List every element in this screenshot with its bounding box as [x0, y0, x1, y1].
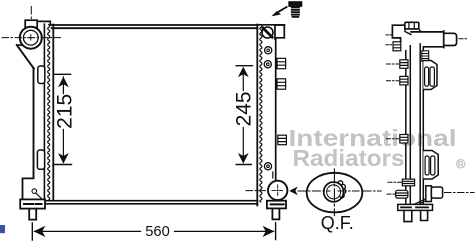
QF vertical centerline: [333, 169, 335, 216]
215 line: [62, 77, 64, 162]
560 right extension: [275, 223, 277, 240]
tank bottom step: [23, 178, 34, 199]
right outlet housing: [267, 201, 286, 209]
bolt rivet circle 1: [265, 47, 272, 54]
560 right arrow: [263, 226, 275, 237]
right tank top edge: [257, 24, 285, 26]
outlet cross: [272, 185, 283, 196]
sv pipe centerline right: [459, 38, 468, 40]
right drain pipe: [272, 209, 279, 220]
215 arrow up: [58, 77, 69, 88]
nipple 3: [278, 135, 287, 145]
right housing dashes: [271, 203, 284, 205]
215 top tick: [55, 73, 71, 75]
bolt shank: [292, 7, 299, 16]
svg-text:Radiators: Radiators: [293, 145, 405, 171]
filler center cross: [28, 35, 34, 41]
560 left arrow: [34, 226, 46, 237]
QF ellipse: [307, 173, 363, 213]
sv pointer top1: [386, 34, 392, 36]
sv neck-to-pipe: [419, 29, 421, 32]
right cap circle with slash: [262, 27, 273, 38]
left header plate line: [43, 24, 45, 199]
svg-text:R: R: [458, 160, 464, 169]
QF arrow to outlet: [289, 187, 298, 196]
sv upper bracket slot 2: [430, 67, 434, 86]
sv body line 3: [419, 44, 421, 204]
245 bottom tick: [236, 164, 251, 166]
bolt rivet circle 3: [264, 163, 271, 170]
sv body line 1: [405, 51, 407, 204]
svg-text:245: 245: [232, 91, 255, 126]
215 arrow down: [58, 153, 69, 164]
bottom outlet circle: [268, 181, 287, 200]
tank shoulder: [17, 44, 23, 46]
watermark registered mark: [457, 160, 465, 169]
sv pointer block: [387, 193, 395, 195]
sv pipe support hatch: [422, 51, 429, 62]
sv left block: [396, 190, 408, 198]
sv top-left block: [392, 25, 405, 42]
sv inlet pipe: [411, 31, 457, 48]
sv pointer top2: [386, 44, 392, 46]
560 left extension: [31, 223, 33, 240]
right header zigzag: [260, 25, 262, 203]
QF horizontal centerline: [298, 190, 381, 192]
sv right leg: [421, 210, 428, 220]
sv pointer B: [387, 80, 399, 82]
QF plug inner circle: [327, 185, 341, 199]
sv filler neck: [405, 22, 419, 29]
sv bottom bar dashes: [401, 206, 428, 208]
svg-text:560: 560: [145, 224, 170, 240]
sv pointer C: [387, 138, 399, 140]
sv left leg: [404, 210, 412, 221]
245 line: [242, 69, 244, 163]
215 bottom tick: [53, 164, 72, 166]
core top double line: [52, 25, 258, 28]
left header zigzag: [48, 25, 50, 201]
core bottom double line: [45, 201, 258, 204]
sv bottom bar: [398, 204, 433, 210]
outlet centerline left: [246, 190, 267, 192]
tank taper line: [272, 172, 274, 178]
drain diagonal: [36, 193, 44, 201]
filler neck outer circle: [20, 27, 42, 49]
sv lower bracket slot 1: [425, 156, 429, 175]
horizontal centerline through cap: [2, 37, 62, 39]
blue corner mark: [0, 225, 5, 233]
560 line: [35, 230, 274, 232]
filler neck inner circle: [23, 30, 38, 45]
sv stud A: [400, 60, 408, 69]
sv upper bracket slot 1: [425, 67, 429, 86]
QF plug thread bumps: [338, 181, 346, 198]
sv block inner edge: [405, 25, 411, 34]
sv outlet centerline: [445, 192, 475, 194]
245 arrow up: [238, 67, 249, 78]
245 top tick: [236, 65, 252, 67]
sv diagonal strut: [414, 199, 426, 206]
mounting slot upper: [38, 66, 45, 84]
sv body line 4: [422, 47, 424, 204]
QF plug outer circle: [324, 182, 344, 202]
245 arrow down: [238, 153, 249, 164]
sv right outlet pipe: [431, 187, 442, 198]
sv pointer stack: [388, 181, 401, 183]
nipple 1: [277, 58, 286, 68]
sv top stud: [393, 42, 401, 51]
svg-text:215: 215: [54, 94, 77, 129]
core left edge: [52, 25, 54, 201]
sv body line 2: [409, 46, 411, 204]
tank left edge: [33, 68, 35, 178]
left outlet housing: [20, 199, 45, 208]
nipple 2: [277, 79, 286, 89]
left tank top edge: [39, 21, 51, 24]
sv upper bracket: [423, 61, 437, 90]
sv lower bracket slot 2: [431, 156, 435, 175]
drain circle detail: [32, 189, 37, 194]
sv bottom stud stack: [402, 179, 414, 186]
top right bracket: [275, 25, 284, 39]
tank diagonal edge: [17, 45, 34, 69]
bolt head: [288, 1, 302, 7]
filler cap rectangle: [25, 20, 37, 27]
sv right outlet flange: [426, 186, 432, 202]
sv stud B: [400, 76, 408, 85]
sv lower bracket: [423, 151, 438, 180]
sv pointer A: [387, 63, 399, 65]
right core edge: [256, 25, 258, 206]
bolt rivet circle 2: [264, 61, 271, 68]
sv neck slot: [409, 23, 414, 29]
right tank edge: [275, 39, 277, 181]
mounting slot lower: [37, 150, 44, 169]
vertical centerline above cap: [30, 7, 32, 19]
left drain pipe: [29, 209, 36, 220]
pointer arrow: [277, 7, 287, 13]
svg-text:Q.F.: Q.F.: [321, 213, 354, 233]
left housing dashes: [24, 203, 42, 205]
sv stud C: [400, 135, 408, 144]
